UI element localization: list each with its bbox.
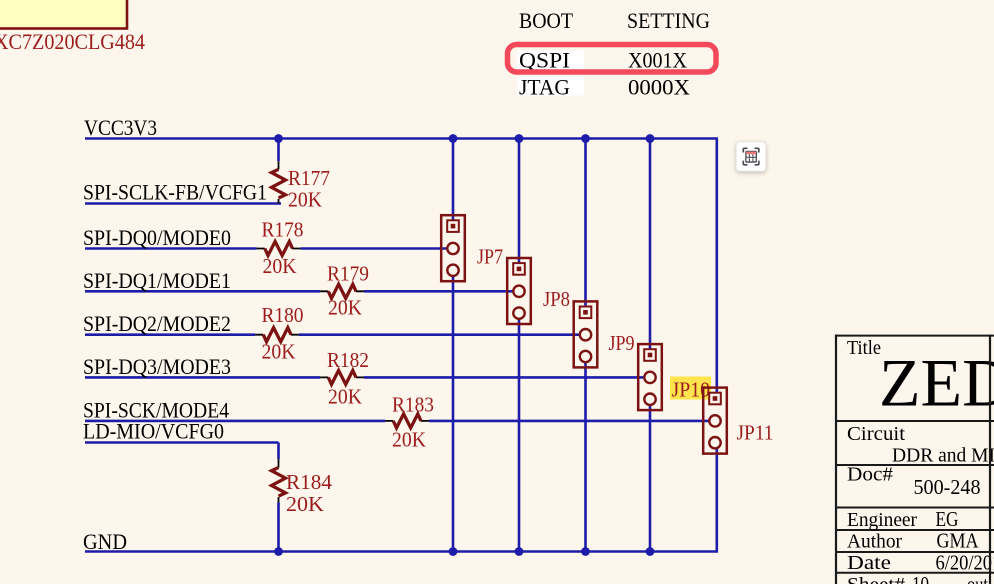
wire net GND rail xyxy=(85,550,718,553)
title block text Title xyxy=(847,337,881,359)
wire net SPI-DQ2/MODE2 xyxy=(85,333,586,336)
resistor R183 xyxy=(385,414,429,428)
wire R184 to GND xyxy=(277,502,280,551)
wire net SPI-DQ3/MODE3 xyxy=(85,376,650,379)
wire VCC3V3 to JP9 pin1 xyxy=(584,139,587,313)
svg-text:GND: GND xyxy=(83,529,127,554)
junction on GND rail xyxy=(274,547,283,556)
wire JP11 pin3 to GND corner xyxy=(715,443,718,552)
label R177 xyxy=(288,166,330,190)
svg-text:out: out xyxy=(967,572,988,584)
svg-text:6/20/2012: 6/20/2012 xyxy=(936,550,994,574)
label JP11 xyxy=(737,421,774,445)
value 20K of R180 xyxy=(262,340,296,364)
search highlight behind JP10 label xyxy=(670,377,711,400)
junction on VCC3V3 rail xyxy=(581,134,590,143)
svg-text:SETTING: SETTING xyxy=(627,8,710,33)
UI button extract-table icon xyxy=(736,142,766,171)
net label SPI-DQ1/MODE1 xyxy=(83,268,231,293)
title block text ZED (clipped) xyxy=(879,345,994,421)
title block frame xyxy=(835,335,994,584)
svg-text:SPI-DQ1/MODE1: SPI-DQ1/MODE1 xyxy=(83,268,231,293)
net label GND xyxy=(83,529,127,554)
junction on VCC3V3 rail xyxy=(449,134,458,143)
title block text 500-248 xyxy=(914,475,981,499)
wire net LD-MIO/VCFG0 xyxy=(85,441,279,444)
wire VCC3V3 corner to JP11 pin1 xyxy=(715,139,718,399)
svg-text:JP11: JP11 xyxy=(737,421,774,445)
wire net SPI-DQ1/MODE1 xyxy=(85,290,519,293)
junction on GND rail xyxy=(449,547,458,556)
svg-text:SPI-DQ3/MODE3: SPI-DQ3/MODE3 xyxy=(83,354,231,379)
label R179 xyxy=(327,262,369,286)
svg-text:JTAG: JTAG xyxy=(519,75,570,100)
svg-text:JP7: JP7 xyxy=(477,245,503,269)
wire net SPI-SCK/MODE4 xyxy=(85,420,715,423)
title block right divider xyxy=(989,335,991,584)
svg-text:Engineer: Engineer xyxy=(847,509,917,531)
resistor R178 xyxy=(257,242,301,256)
svg-text:QSPI: QSPI xyxy=(519,48,570,73)
net label SPI-DQ3/MODE3 xyxy=(83,354,231,379)
junction on GND rail xyxy=(646,547,655,556)
table cell QSPI xyxy=(517,48,584,73)
junction on VCC3V3 rail xyxy=(274,134,283,143)
net label VCC3V3 xyxy=(84,115,157,140)
resistor R182 xyxy=(320,370,364,384)
title block text Doc# xyxy=(847,464,893,486)
svg-text:Date: Date xyxy=(847,552,891,574)
table cell 0000X xyxy=(628,75,690,100)
value 20K of R177 xyxy=(288,188,322,212)
jumper JP11 xyxy=(703,388,727,454)
wire VCC3V3 to R177 xyxy=(277,139,280,162)
jumper JP10 xyxy=(638,344,662,410)
svg-text:JP9: JP9 xyxy=(609,331,635,355)
value 20K of R178 xyxy=(263,254,297,278)
svg-text:20K: 20K xyxy=(262,340,296,364)
junction on GND rail xyxy=(515,547,524,556)
annotation red highlight box around QSPI row xyxy=(508,45,717,73)
wire VCC3V3 to JP8 pin1 xyxy=(518,139,521,269)
svg-text:R183: R183 xyxy=(392,393,434,417)
net label LD-MIO/VCFG0 xyxy=(83,419,224,444)
wire net SPI-DQ0/MODE0 xyxy=(85,247,453,250)
wire LD-MIO to R184 xyxy=(277,443,280,460)
svg-text:SPI-DQ0/MODE0: SPI-DQ0/MODE0 xyxy=(83,225,231,250)
net label SPI-DQ2/MODE2 xyxy=(83,311,231,336)
table header BOOT xyxy=(519,8,574,33)
label JP8 xyxy=(543,287,570,311)
svg-text:500-248: 500-248 xyxy=(914,475,981,499)
wire net SPI-SCLK-FB/VCFG1 xyxy=(85,202,281,205)
label JP10 xyxy=(672,378,711,402)
table cell X001X xyxy=(628,48,687,73)
resistor R177 xyxy=(272,161,286,203)
svg-text:20K: 20K xyxy=(288,188,322,212)
table cell JTAG xyxy=(517,75,584,100)
wire net VCC3V3 rail xyxy=(85,137,718,140)
svg-text:DDR and MI: DDR and MI xyxy=(892,445,994,467)
svg-text:10: 10 xyxy=(912,572,929,584)
svg-text:JP8: JP8 xyxy=(543,287,570,311)
label R183 xyxy=(392,393,434,417)
title block text Date xyxy=(847,552,891,574)
svg-text:SPI-SCLK-FB/VCFG1: SPI-SCLK-FB/VCFG1 xyxy=(83,180,267,205)
wire VCC3V3 to JP10 pin1 xyxy=(649,139,652,355)
net label SPI-SCK/MODE4 xyxy=(83,397,229,422)
net label SPI-DQ0/MODE0 xyxy=(83,225,231,250)
wire JP10 pin3 to GND xyxy=(649,399,652,551)
svg-text:Author: Author xyxy=(847,531,902,553)
svg-text:20K: 20K xyxy=(286,492,324,516)
svg-text:Sheet#: Sheet# xyxy=(847,574,905,584)
resistor R184 xyxy=(272,459,286,502)
wire JP8 pin3 to GND xyxy=(518,313,521,551)
svg-text:R177: R177 xyxy=(288,166,330,190)
value 20K of R179 xyxy=(328,296,362,320)
svg-text:R182: R182 xyxy=(327,348,369,372)
jumper JP8 xyxy=(507,258,531,324)
title block text Author xyxy=(847,531,902,553)
svg-text:20K: 20K xyxy=(328,385,362,409)
IC U1 XC7Z020 body xyxy=(0,0,127,29)
title block text Sheet# xyxy=(847,574,905,584)
wire VCC3V3 to JP7 pin1 xyxy=(452,139,455,227)
title block text out xyxy=(967,572,988,584)
net label SPI-SCLK-FB/VCFG1 xyxy=(83,180,267,205)
svg-text:Circuit: Circuit xyxy=(847,423,905,445)
svg-text:XC7Z020CLG484: XC7Z020CLG484 xyxy=(0,29,145,54)
label R182 xyxy=(327,348,369,372)
svg-text:R180: R180 xyxy=(262,303,304,327)
svg-text:GMA: GMA xyxy=(937,529,980,553)
svg-text:R179: R179 xyxy=(327,262,369,286)
svg-text:SPI-DQ2/MODE2: SPI-DQ2/MODE2 xyxy=(83,311,231,336)
svg-text:ZEDB: ZEDB xyxy=(879,345,994,421)
svg-text:R184: R184 xyxy=(286,470,332,494)
svg-text:20K: 20K xyxy=(263,254,297,278)
label JP9 xyxy=(609,331,635,355)
svg-text:0000X: 0000X xyxy=(628,75,690,100)
jumper JP7 xyxy=(441,215,465,281)
title block text EG xyxy=(936,507,959,531)
svg-text:X001X: X001X xyxy=(628,48,687,73)
title block text GMA xyxy=(937,529,980,553)
jumper JP9 xyxy=(574,301,598,367)
resistor R179 xyxy=(320,284,364,298)
value 20K of R184 xyxy=(286,492,324,516)
label R180 xyxy=(262,303,304,327)
IC U1 value label XC7Z020CLG484 xyxy=(0,29,145,54)
label JP7 xyxy=(477,245,503,269)
junction on VCC3V3 rail xyxy=(646,134,655,143)
title block text Circuit xyxy=(847,423,905,445)
value 20K of R182 xyxy=(328,385,362,409)
svg-text:EG: EG xyxy=(936,507,959,531)
junction on GND rail xyxy=(581,547,590,556)
title block text 10 xyxy=(912,572,929,584)
svg-text:VCC3V3: VCC3V3 xyxy=(84,115,157,140)
resistor R180 xyxy=(255,328,299,342)
title block text Engineer xyxy=(847,509,917,531)
svg-text:20K: 20K xyxy=(392,428,426,452)
label R184 xyxy=(286,470,332,494)
label R178 xyxy=(262,218,304,242)
svg-text:Title: Title xyxy=(847,337,881,359)
value 20K of R183 xyxy=(392,428,426,452)
svg-text:20K: 20K xyxy=(328,296,362,320)
wire JP9 pin3 to GND xyxy=(584,357,587,552)
svg-text:Doc#: Doc# xyxy=(847,464,893,486)
svg-text:R178: R178 xyxy=(262,218,304,242)
svg-text:BOOT: BOOT xyxy=(519,8,574,33)
title block text DDR and MIO Confi xyxy=(892,445,994,467)
table header SETTING xyxy=(627,8,710,33)
wire JP7 pin3 to GND xyxy=(452,270,455,551)
junction on VCC3V3 rail xyxy=(515,134,524,143)
svg-text:LD-MIO/VCFG0: LD-MIO/VCFG0 xyxy=(83,419,224,444)
title block text 6/20/2012 xyxy=(936,550,994,574)
